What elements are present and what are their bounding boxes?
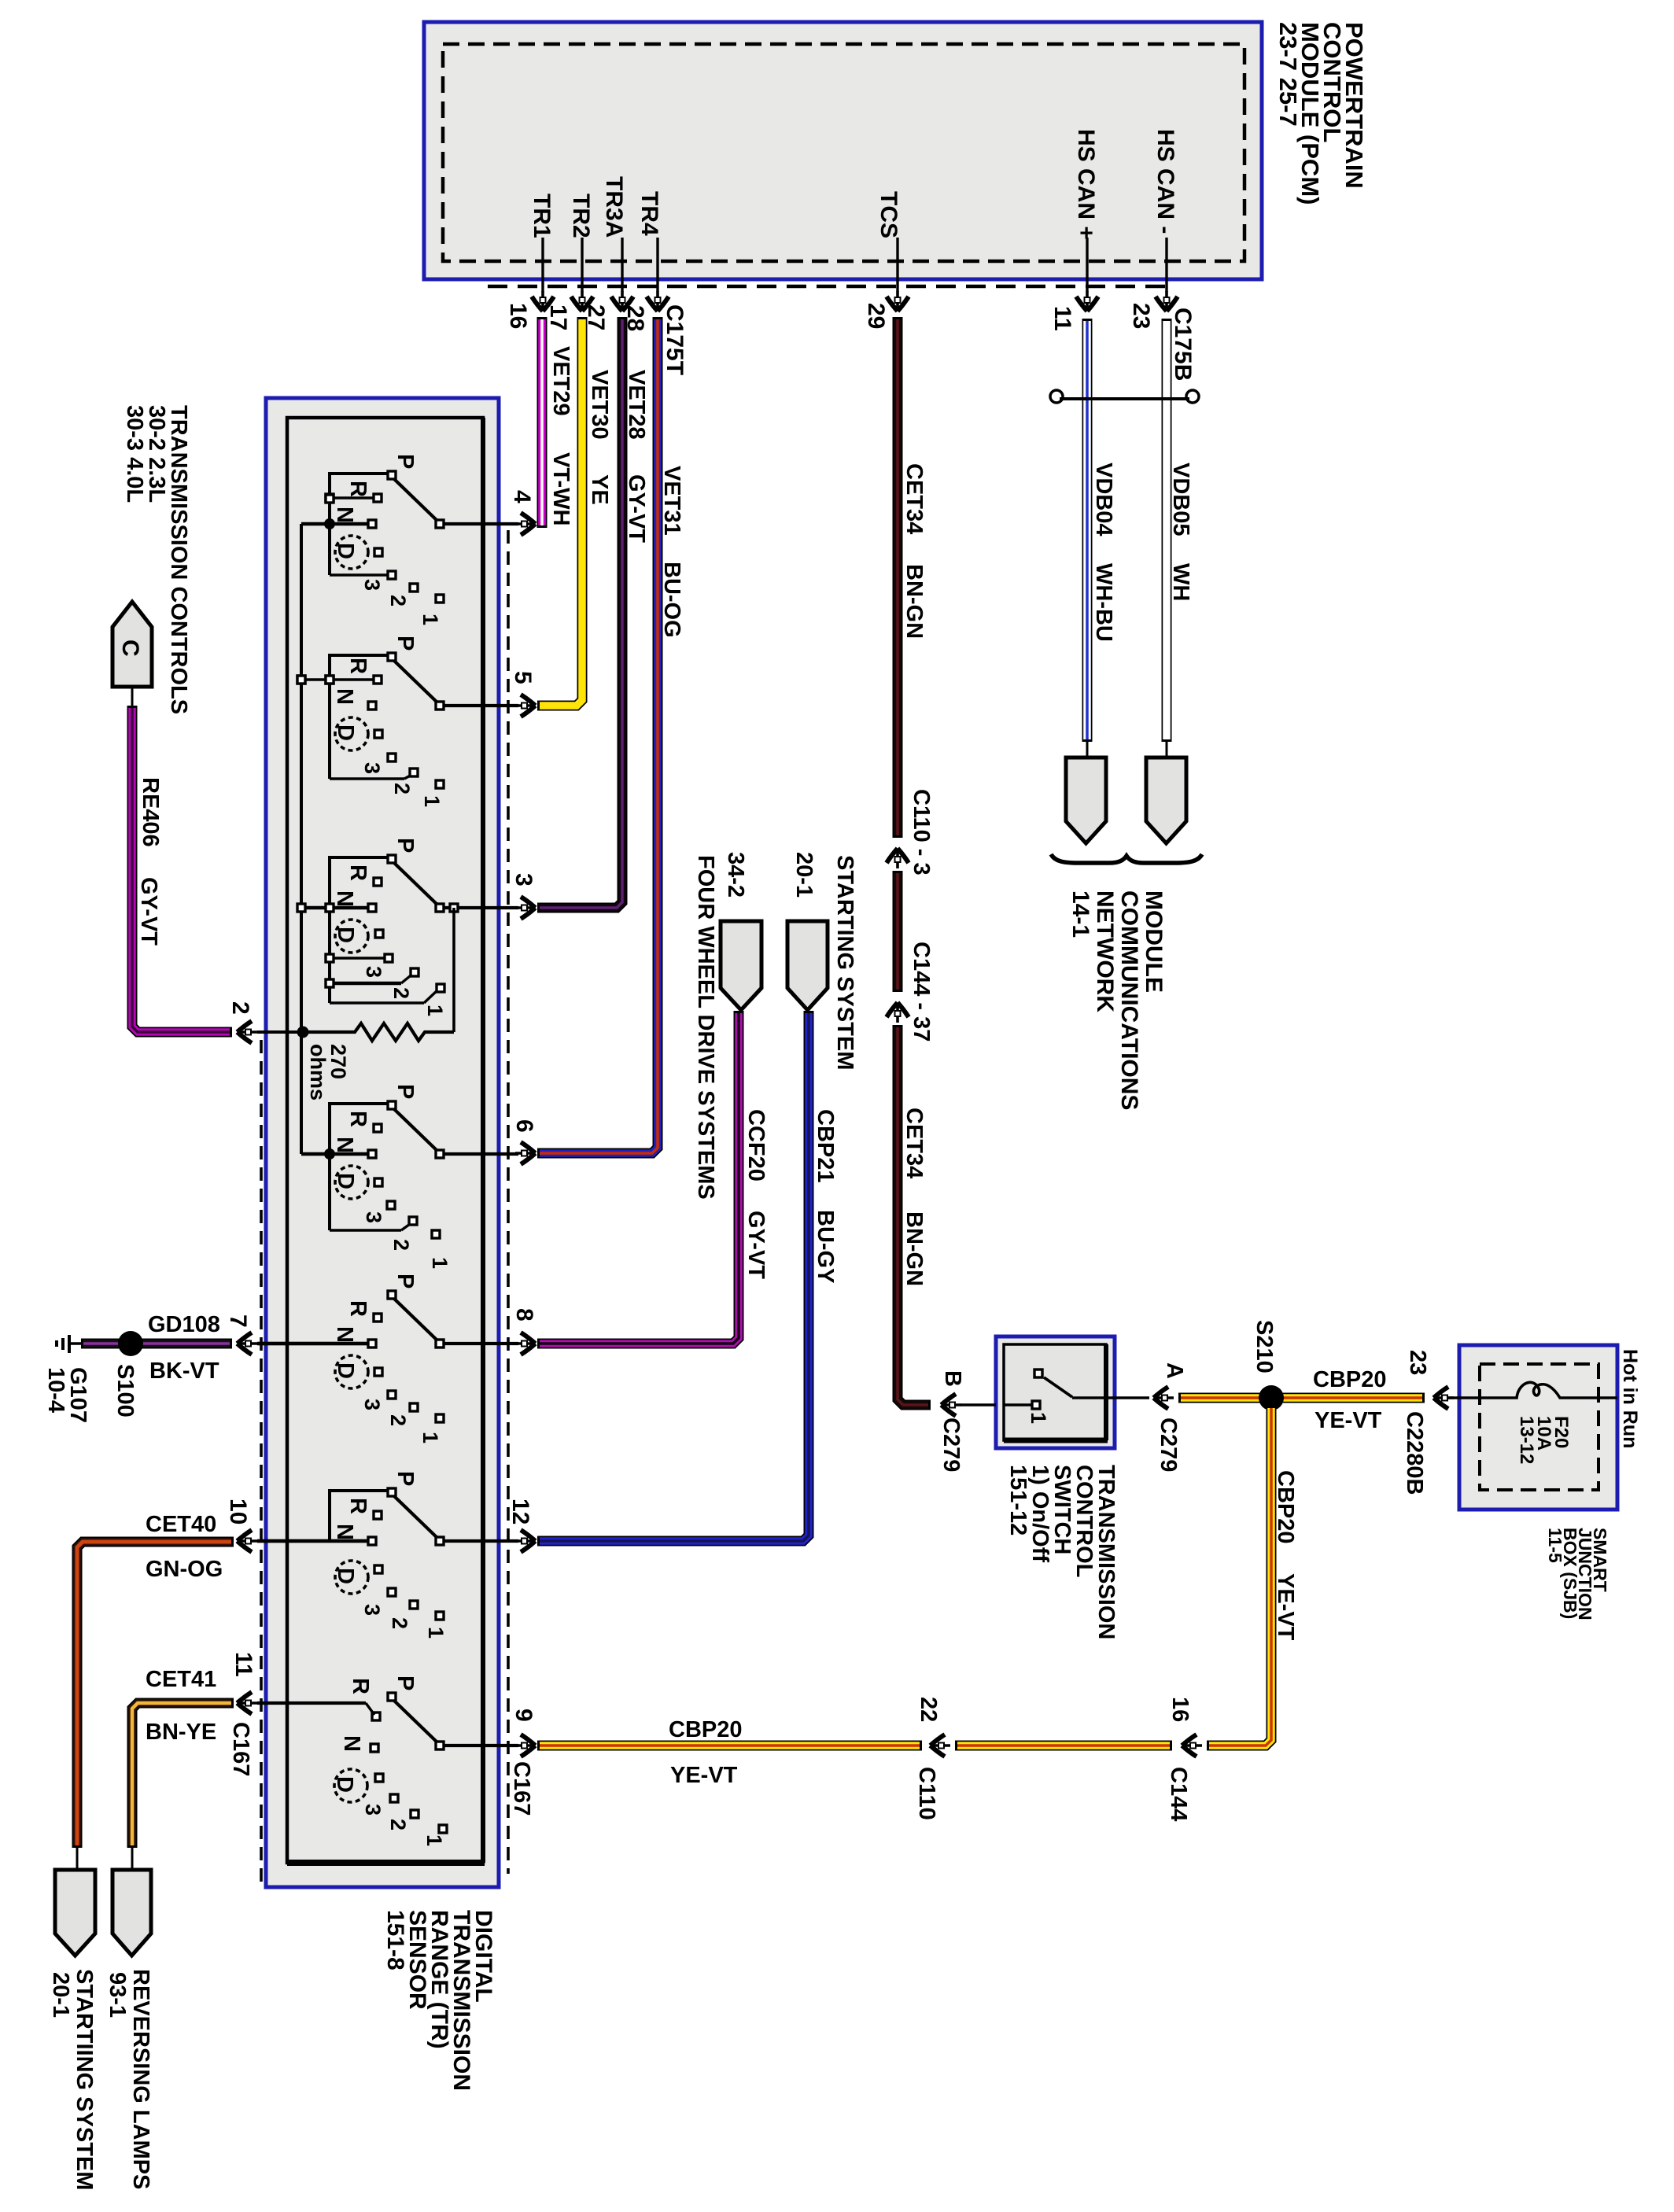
TR sensor switch 4 bbox=[301, 1084, 518, 1269]
TR sensor pin 2 connector arrow (left) bbox=[238, 1021, 258, 1043]
svg-text:1: 1 bbox=[423, 1005, 447, 1016]
svg-text:151-12: 151-12 bbox=[1005, 1465, 1031, 1535]
svg-text:N: N bbox=[332, 890, 357, 907]
svg-text:20-1: 20-1 bbox=[48, 1972, 73, 2018]
svg-text:D: D bbox=[332, 1776, 357, 1793]
TR sensor switch 7 bbox=[332, 1676, 518, 1846]
svg-text:S210: S210 bbox=[1252, 1320, 1277, 1373]
connector arrow at PCM pin TR3A bbox=[611, 291, 633, 312]
svg-text:C167: C167 bbox=[228, 1722, 253, 1776]
svg-text:BU-GY: BU-GY bbox=[813, 1210, 838, 1283]
svg-text:29: 29 bbox=[863, 303, 889, 329]
svg-text:VT-WH: VT-WH bbox=[548, 452, 573, 525]
pin stub TR1 bbox=[541, 238, 544, 292]
wire CET34 BN-GN segment 2 bbox=[893, 871, 903, 992]
svg-text:R: R bbox=[345, 1111, 371, 1127]
svg-text:R: R bbox=[345, 865, 371, 881]
TR sensor pin 12 connector arrow bbox=[515, 1530, 536, 1552]
wire VET31 BU-OG (PCM C175T to TR sensor pin 6) bbox=[537, 317, 658, 1153]
connector arrow A bbox=[1154, 1387, 1174, 1409]
svg-text:VET31: VET31 bbox=[659, 466, 684, 536]
svg-text:3: 3 bbox=[360, 762, 384, 774]
svg-text:1: 1 bbox=[1027, 1412, 1050, 1424]
svg-text:BU-OG: BU-OG bbox=[659, 562, 684, 638]
connector arrow SJB pin 23 / C2280B bbox=[1434, 1387, 1455, 1409]
svg-text:C: C bbox=[117, 640, 143, 657]
svg-text:C2280B: C2280B bbox=[1402, 1411, 1427, 1495]
svg-text:N: N bbox=[332, 1137, 357, 1153]
lead to starting system pentagon bbox=[76, 1845, 79, 1871]
svg-text:MODULE: MODULE bbox=[1141, 890, 1167, 993]
wire VDB05 WH (HS CAN -) bbox=[1162, 319, 1172, 742]
label block TRANSMISSION CONTROLS 30-2 2.3L 30-3 4.0L bbox=[122, 405, 191, 714]
svg-text:VET29: VET29 bbox=[548, 346, 573, 416]
svg-text:TR4: TR4 bbox=[636, 191, 662, 236]
svg-text:A: A bbox=[1162, 1362, 1187, 1379]
svg-text:2: 2 bbox=[386, 1819, 410, 1830]
svg-text:C110: C110 bbox=[914, 1767, 939, 1820]
svg-text:2: 2 bbox=[390, 783, 414, 794]
svg-text:P: P bbox=[393, 1471, 418, 1486]
svg-text:12: 12 bbox=[507, 1499, 533, 1524]
svg-text:3: 3 bbox=[362, 966, 385, 978]
TR sensor pin 8 connector arrow bbox=[515, 1333, 536, 1355]
svg-text:3: 3 bbox=[362, 1211, 385, 1223]
svg-text:14-1: 14-1 bbox=[1067, 890, 1093, 938]
svg-text:5: 5 bbox=[510, 671, 536, 684]
wire CBP20 YE-VT (S210 to SJB pin 23) bbox=[1264, 1393, 1425, 1403]
connector arrow at PCM pin CANN bbox=[1156, 291, 1178, 312]
svg-text:C110 - 3: C110 - 3 bbox=[909, 789, 934, 876]
svg-text:WH-BU: WH-BU bbox=[1091, 563, 1116, 642]
inline connector arrow C110-3 on CET34 bbox=[887, 849, 909, 869]
fuse F20 10A bbox=[1448, 1382, 1617, 1398]
connector pentagon STARTING SYSTEM (bottom) bbox=[55, 1870, 95, 1956]
wire CBP20 YE-VT (A arrow to S210) bbox=[1178, 1393, 1269, 1403]
wire GD108 BK-VT (ground to TR sensor pin 7) bbox=[81, 1339, 232, 1349]
TR sensor pin 5 connector arrow bbox=[515, 695, 536, 717]
svg-text:P: P bbox=[393, 838, 418, 853]
Digital Transmission Range (TR) sensor box bbox=[266, 398, 499, 1887]
SW3 right-side link line to resistor bbox=[452, 908, 455, 1032]
fuse labels F20 10A 13-12 bbox=[1516, 1416, 1572, 1464]
lead from pentagon C bbox=[131, 687, 134, 708]
svg-text:HS CAN -: HS CAN - bbox=[1152, 129, 1178, 234]
svg-text:CBP21: CBP21 bbox=[813, 1109, 838, 1183]
TR sensor switch 6 bbox=[257, 1471, 518, 1639]
wire CBP20 YE-VT (S210 down and across to TR sensor pin 9) bbox=[1207, 1406, 1271, 1746]
svg-text:3: 3 bbox=[360, 1604, 384, 1616]
svg-text:10-4: 10-4 bbox=[43, 1367, 68, 1413]
svg-text:23-7 25-7: 23-7 25-7 bbox=[1274, 22, 1302, 127]
splice S210 bbox=[1259, 1385, 1284, 1410]
internal bus line linking switches bbox=[300, 524, 303, 1154]
svg-text:WH: WH bbox=[1168, 563, 1193, 601]
svg-text:2: 2 bbox=[227, 1001, 253, 1015]
junction dot at resistor / pin2 node bbox=[297, 1027, 309, 1038]
bus connection square at SW2 R row bbox=[297, 676, 305, 684]
svg-text:11: 11 bbox=[230, 1652, 256, 1677]
svg-text:STARTING SYSTEM: STARTING SYSTEM bbox=[832, 855, 857, 1070]
svg-text:P: P bbox=[393, 1274, 418, 1288]
svg-text:2: 2 bbox=[386, 1414, 410, 1426]
svg-text:22: 22 bbox=[916, 1697, 941, 1722]
wire VET29 VT-WH (PCM pin 16/17 to TR sensor pin 4) bbox=[537, 317, 548, 528]
svg-text:N: N bbox=[339, 1735, 364, 1752]
pin 7 feed line to N contact bbox=[257, 1342, 368, 1345]
svg-text:2: 2 bbox=[389, 987, 413, 999]
svg-text:C175B: C175B bbox=[1170, 308, 1196, 381]
wire VET30 YE (PCM pin 27 to TR sensor pin 5) bbox=[537, 317, 582, 706]
svg-text:VET30: VET30 bbox=[587, 370, 612, 440]
network connector pentagon (HS CAN -) bbox=[1146, 758, 1186, 843]
svg-text:2: 2 bbox=[386, 595, 410, 606]
svg-text:C167: C167 bbox=[509, 1761, 534, 1816]
svg-text:C144: C144 bbox=[1166, 1767, 1191, 1821]
svg-text:C175T: C175T bbox=[662, 304, 688, 375]
line from B arrow to TCS box bbox=[961, 1403, 996, 1406]
TR sensor title block DIGITAL TRANSMISSION RANGE (TR) SENSOR 151-8 bbox=[382, 1910, 496, 2091]
wire RE406 GY-VT (transmission controls to TR sensor pin 2) bbox=[132, 706, 232, 1032]
svg-text:R: R bbox=[345, 1498, 371, 1514]
svg-text:P: P bbox=[393, 1676, 418, 1690]
svg-text:BN-YE: BN-YE bbox=[146, 1720, 216, 1745]
inline connector arrow C144-37 on CET34 bbox=[887, 1003, 909, 1023]
svg-text:CET34: CET34 bbox=[902, 463, 927, 534]
svg-text:HS CAN +: HS CAN + bbox=[1073, 129, 1099, 240]
svg-text:TCS: TCS bbox=[876, 191, 902, 238]
svg-text:P: P bbox=[393, 454, 418, 469]
svg-text:20-1: 20-1 bbox=[791, 852, 817, 898]
svg-text:23: 23 bbox=[1128, 303, 1154, 329]
svg-text:6: 6 bbox=[511, 1119, 537, 1133]
svg-text:YE: YE bbox=[587, 474, 612, 505]
svg-text:CET40: CET40 bbox=[146, 1512, 216, 1537]
svg-text:N: N bbox=[332, 688, 357, 705]
wire CBP20 YE-VT (C144 to C110) bbox=[955, 1741, 1172, 1751]
svg-text:FOUR WHEEL DRIVE SYSTEMS: FOUR WHEEL DRIVE SYSTEMS bbox=[693, 855, 718, 1200]
pin stub TR2 bbox=[581, 238, 583, 292]
svg-text:1: 1 bbox=[418, 1432, 442, 1443]
connector C175 dashed line below PCM bbox=[488, 285, 1172, 289]
svg-text:93-1: 93-1 bbox=[105, 1972, 130, 2018]
svg-text:3: 3 bbox=[361, 1804, 385, 1816]
pin stub TR3A bbox=[621, 238, 623, 292]
svg-text:2: 2 bbox=[389, 1239, 413, 1251]
svg-text:GY-VT: GY-VT bbox=[743, 1211, 769, 1279]
TR sensor pin 9 connector arrow bbox=[515, 1735, 536, 1757]
TCS title block bbox=[1005, 1465, 1119, 1639]
connector C167 dashed line (left) bbox=[260, 1040, 263, 1886]
svg-text:D: D bbox=[333, 1362, 358, 1379]
svg-text:CBP20: CBP20 bbox=[669, 1717, 743, 1742]
svg-text:30-3 4.0L: 30-3 4.0L bbox=[122, 405, 147, 503]
TR sensor pin 10 connector arrow (left) bbox=[238, 1530, 258, 1552]
svg-text:1: 1 bbox=[428, 1257, 452, 1269]
svg-text:D: D bbox=[333, 927, 358, 943]
svg-text:R: R bbox=[348, 1678, 373, 1694]
inline connector arrow 16 / C144 bbox=[1182, 1735, 1203, 1757]
ground symbol G107 bbox=[57, 1335, 83, 1353]
connector pentagon FOUR WHEEL DRIVE SYSTEMS bbox=[721, 921, 761, 1010]
pin 2 lead line bbox=[257, 1030, 303, 1034]
svg-text:N: N bbox=[332, 1524, 357, 1540]
svg-text:CET34: CET34 bbox=[902, 1108, 927, 1178]
svg-text:CBP20: CBP20 bbox=[1313, 1367, 1387, 1392]
svg-text:Hot in Run: Hot in Run bbox=[1619, 1349, 1641, 1448]
svg-text:34-2: 34-2 bbox=[723, 852, 748, 898]
svg-text:2: 2 bbox=[388, 1617, 411, 1629]
svg-text:D: D bbox=[333, 1568, 358, 1584]
lead to network pentagon 2 bbox=[1166, 739, 1168, 758]
splice S100 bbox=[118, 1331, 143, 1356]
wire CET41 BN-YE (TR sensor pin 11 to reversing lamps) bbox=[132, 1703, 234, 1848]
wire CET40 GN-OG (TR sensor pin 10 to starting system) bbox=[77, 1542, 234, 1848]
Smart Junction Box (SJB) bbox=[1459, 1345, 1617, 1510]
pin 10 feed line to N contact bbox=[257, 1539, 368, 1543]
svg-text:YE-VT: YE-VT bbox=[1273, 1573, 1298, 1641]
connector arrow at PCM pin TR2 bbox=[571, 291, 593, 312]
wire VET28 GY-VT (PCM pin 28 to TR sensor pin 3) bbox=[537, 317, 622, 908]
Transmission Control Switch box bbox=[996, 1336, 1115, 1448]
SW7 pin 11 feed line with diagonal to R contact bbox=[257, 1701, 366, 1705]
svg-text:C279: C279 bbox=[1156, 1418, 1181, 1472]
svg-text:16: 16 bbox=[1167, 1697, 1193, 1722]
svg-text:8: 8 bbox=[511, 1308, 537, 1322]
wire VDB04 WH-BU (HS CAN +) bbox=[1082, 319, 1093, 742]
TR sensor pin 7 connector arrow (left) bbox=[238, 1333, 258, 1355]
network connector pentagon (HS CAN +) bbox=[1066, 758, 1106, 843]
svg-text:P: P bbox=[393, 1084, 418, 1099]
wire CET34 BN-GN segment 1 (PCM pin 29 down) bbox=[893, 317, 903, 838]
svg-text:GD108: GD108 bbox=[148, 1312, 220, 1337]
svg-text:GY-VT: GY-VT bbox=[136, 877, 161, 946]
svg-text:YE-VT: YE-VT bbox=[670, 1763, 738, 1788]
bus connection square at SW3 N row bbox=[297, 904, 305, 912]
resistor 270 ohms bbox=[303, 1023, 454, 1041]
svg-text:7: 7 bbox=[225, 1314, 251, 1328]
svg-text:R: R bbox=[345, 1300, 371, 1317]
svg-text:S100: S100 bbox=[112, 1364, 138, 1418]
svg-text:1: 1 bbox=[420, 795, 444, 807]
svg-text:BK-VT: BK-VT bbox=[149, 1359, 219, 1384]
wire CBP20 YE-VT (C110 to TR sensor pin 9) bbox=[537, 1741, 922, 1751]
svg-text:C279: C279 bbox=[938, 1418, 964, 1472]
svg-text:VDB04: VDB04 bbox=[1091, 463, 1116, 536]
svg-text:D: D bbox=[333, 1173, 358, 1189]
svg-text:1: 1 bbox=[424, 1627, 448, 1639]
svg-text:N: N bbox=[332, 1326, 357, 1343]
svg-text:10: 10 bbox=[225, 1499, 251, 1524]
SJB title block SMART JUNCTION BOX (SJB) 11-5 bbox=[1545, 1528, 1610, 1620]
pin stub TR4 bbox=[656, 238, 658, 292]
connector arrow at PCM pin CANP bbox=[1076, 291, 1098, 312]
wire CET34 BN-GN segment 3 (down to transmission control switch) bbox=[898, 1025, 931, 1405]
wire CET34 arrow into TCS (B) bbox=[942, 1394, 962, 1416]
connector arrow at PCM pin TR1 bbox=[532, 291, 554, 312]
svg-text:TR2: TR2 bbox=[568, 194, 594, 238]
lead to network pentagon 1 bbox=[1086, 739, 1089, 758]
svg-text:11: 11 bbox=[1049, 306, 1075, 331]
TCS switch internal bbox=[1004, 1403, 1032, 1406]
connector pentagon STARTING SYSTEM bbox=[787, 921, 828, 1010]
connector arrow at PCM pin TR4 bbox=[647, 291, 669, 312]
svg-text:VDB05: VDB05 bbox=[1168, 463, 1193, 536]
twisted pair symbol on HS CAN wires bbox=[1050, 390, 1199, 403]
TR sensor pin 4 connector arrow bbox=[515, 513, 536, 535]
lead to reversing lamps pentagon bbox=[131, 1845, 134, 1871]
inline connector arrow 22 / C110 bbox=[931, 1735, 951, 1757]
svg-text:BN-GN: BN-GN bbox=[902, 1211, 927, 1286]
PCM title label POWERTRAIN CONTROL MODULE (PCM) 23-7 25-7 bbox=[1274, 22, 1368, 205]
svg-text:REVERSING LAMPS: REVERSING LAMPS bbox=[128, 1969, 153, 2189]
svg-text:TR3A: TR3A bbox=[601, 176, 627, 238]
svg-text:GN-OG: GN-OG bbox=[146, 1557, 223, 1582]
svg-text:23: 23 bbox=[1405, 1350, 1430, 1375]
TCS switch arm bbox=[1044, 1377, 1072, 1397]
svg-text:4: 4 bbox=[509, 490, 535, 503]
TR sensor pin 3 connector arrow bbox=[515, 897, 536, 919]
svg-text:D: D bbox=[333, 724, 358, 741]
svg-text:RE406: RE406 bbox=[138, 777, 163, 847]
PCM inner dashed outline bbox=[443, 44, 1244, 261]
svg-text:D: D bbox=[333, 543, 358, 559]
svg-text:13-12: 13-12 bbox=[1516, 1416, 1537, 1464]
svg-text:CCF20: CCF20 bbox=[743, 1109, 769, 1182]
svg-text:3: 3 bbox=[360, 579, 384, 591]
svg-text:NETWORK: NETWORK bbox=[1092, 890, 1118, 1012]
svg-text:COMMUNICATIONS: COMMUNICATIONS bbox=[1116, 890, 1142, 1110]
svg-text:CET41: CET41 bbox=[146, 1667, 216, 1692]
svg-text:9: 9 bbox=[511, 1709, 536, 1722]
svg-text:R: R bbox=[345, 481, 371, 497]
svg-text:16: 16 bbox=[505, 303, 531, 329]
label MODULE COMMUNICATIONS NETWORK 14-1 bbox=[1067, 890, 1167, 1110]
SJB inner dashed box bbox=[1480, 1364, 1598, 1490]
svg-text:CBP20: CBP20 bbox=[1273, 1470, 1298, 1544]
svg-text:C144 - 37: C144 - 37 bbox=[909, 942, 934, 1041]
TR sensor switch 2 bbox=[297, 636, 518, 807]
svg-text:TR1: TR1 bbox=[529, 194, 555, 238]
svg-text:151-8: 151-8 bbox=[382, 1910, 408, 1971]
connector C167 dashed line (right) bbox=[507, 530, 510, 1874]
svg-text:3: 3 bbox=[511, 873, 536, 887]
TR sensor switch 5 bbox=[257, 1274, 518, 1443]
wire CCF20 GY-VT (four wheel drive to TR sensor pin 8) bbox=[537, 1011, 739, 1344]
svg-text:P: P bbox=[393, 636, 418, 651]
svg-text:B: B bbox=[940, 1370, 965, 1387]
PCM module box (Powertrain Control Module) bbox=[424, 22, 1262, 279]
svg-text:GY-VT: GY-VT bbox=[624, 474, 649, 543]
svg-text:1: 1 bbox=[422, 1834, 446, 1846]
TR sensor inner black box bbox=[287, 418, 483, 1863]
line from TCS box to A arrow bbox=[1106, 1396, 1149, 1399]
svg-text:YE-VT: YE-VT bbox=[1314, 1408, 1382, 1433]
wire CBP21 BU-GY (starting system to TR sensor pin 12) bbox=[537, 1011, 809, 1541]
svg-text:ohms: ohms bbox=[306, 1044, 330, 1100]
svg-text:N: N bbox=[332, 507, 357, 523]
svg-text:3: 3 bbox=[360, 1399, 384, 1410]
svg-text:STARTIING SYSTEM: STARTIING SYSTEM bbox=[72, 1969, 97, 2190]
svg-text:VET28: VET28 bbox=[624, 370, 649, 440]
connector pentagon C (transmission controls) bbox=[112, 602, 152, 687]
svg-text:11-5: 11-5 bbox=[1545, 1528, 1565, 1563]
svg-text:17: 17 bbox=[545, 304, 571, 330]
brace under network pentagons bbox=[1051, 854, 1202, 863]
TR sensor switch 3 bbox=[301, 838, 518, 1016]
pin stub CANN bbox=[1165, 238, 1167, 292]
pin stub CANP bbox=[1086, 238, 1088, 292]
TR sensor pin 11 connector arrow (left) bbox=[238, 1692, 258, 1714]
TR sensor pin 6 connector arrow bbox=[515, 1142, 536, 1164]
TR sensor switch 1 bbox=[301, 454, 518, 625]
connector arrow at PCM pin TCS bbox=[887, 291, 909, 312]
svg-text:R: R bbox=[345, 658, 371, 674]
svg-text:1: 1 bbox=[418, 614, 442, 625]
connector pentagon REVERSING LAMPS bbox=[112, 1870, 151, 1956]
pin stub TCS bbox=[896, 238, 898, 292]
svg-text:BN-GN: BN-GN bbox=[902, 564, 927, 639]
